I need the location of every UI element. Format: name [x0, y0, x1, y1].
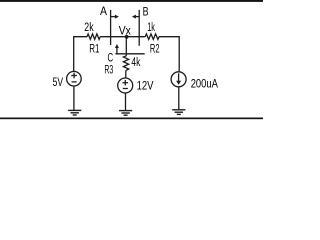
- current probe A (cut line + arrow): [111, 10, 119, 45]
- wire: left branch lower: [73, 86, 75, 110]
- wire: R3 to 12V source: [125, 70, 127, 78]
- wire: top rail right segment + right corner down: [159, 37, 179, 72]
- svg-text:B: B: [143, 6, 149, 18]
- current probe B (cut line + arrow): [132, 10, 139, 46]
- wire: middle branch lower: [125, 93, 127, 111]
- svg-text:12V: 12V: [137, 80, 154, 92]
- wire: left branch top + corner to R1: [74, 37, 87, 72]
- svg-text:2k: 2k: [84, 22, 93, 34]
- voltage source V1 5V: [67, 71, 82, 86]
- svg-text:R2: R2: [150, 43, 160, 55]
- svg-text:R1: R1: [89, 43, 99, 55]
- svg-text:4k: 4k: [131, 57, 140, 69]
- ground (middle): [119, 111, 132, 116]
- bottom border: [0, 118, 263, 120]
- ground (left): [68, 110, 81, 115]
- wire: top rail middle segment: [100, 36, 145, 38]
- ground (right): [172, 110, 185, 115]
- current probe C (cut line + arrow): [115, 44, 145, 54]
- svg-text:5V: 5V: [53, 77, 64, 89]
- node Vx junction dot: [125, 35, 129, 39]
- svg-text:200uA: 200uA: [191, 78, 218, 90]
- svg-text:A: A: [100, 6, 107, 18]
- voltage source V2 12V: [118, 78, 133, 93]
- resistor R3: [123, 56, 128, 71]
- svg-text:R3: R3: [104, 64, 113, 76]
- svg-text:Vx: Vx: [119, 25, 131, 37]
- svg-text:1k: 1k: [147, 22, 155, 34]
- top border: [0, 0, 263, 2]
- current source I1 200uA: [171, 72, 186, 87]
- wire: middle branch upper (Vx down to R3): [125, 37, 127, 56]
- resistor R1: [87, 34, 100, 40]
- resistor R2: [145, 34, 159, 40]
- wire: right branch lower: [178, 87, 180, 110]
- svg-text:C: C: [108, 52, 114, 64]
